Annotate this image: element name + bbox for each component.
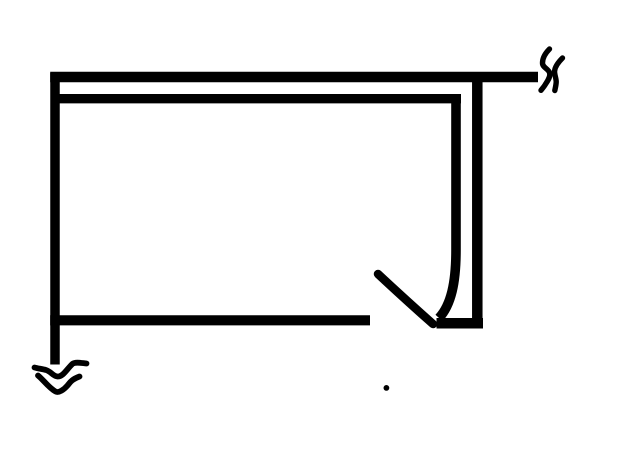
terminal squiggle (open lead, top right) stroke 1	[541, 49, 550, 90]
wire: bottom horizontal	[50, 315, 370, 325]
wire: inner right vertical (curved bottom)	[439, 98, 456, 318]
ground squiggle stroke 2	[38, 376, 80, 392]
wire: outer right vertical	[472, 79, 483, 322]
wire: left vertical	[50, 73, 60, 365]
wire: inner top horizontal	[58, 94, 461, 103]
ground squiggle stroke 1	[35, 363, 87, 377]
wire: outer top horizontal	[50, 72, 538, 82]
terminal squiggle (open lead, top right) stroke 2	[555, 58, 563, 91]
wire: bottom right segment	[437, 318, 484, 329]
switch S1 arm (open blade)	[378, 274, 433, 324]
node dot	[384, 385, 390, 391]
